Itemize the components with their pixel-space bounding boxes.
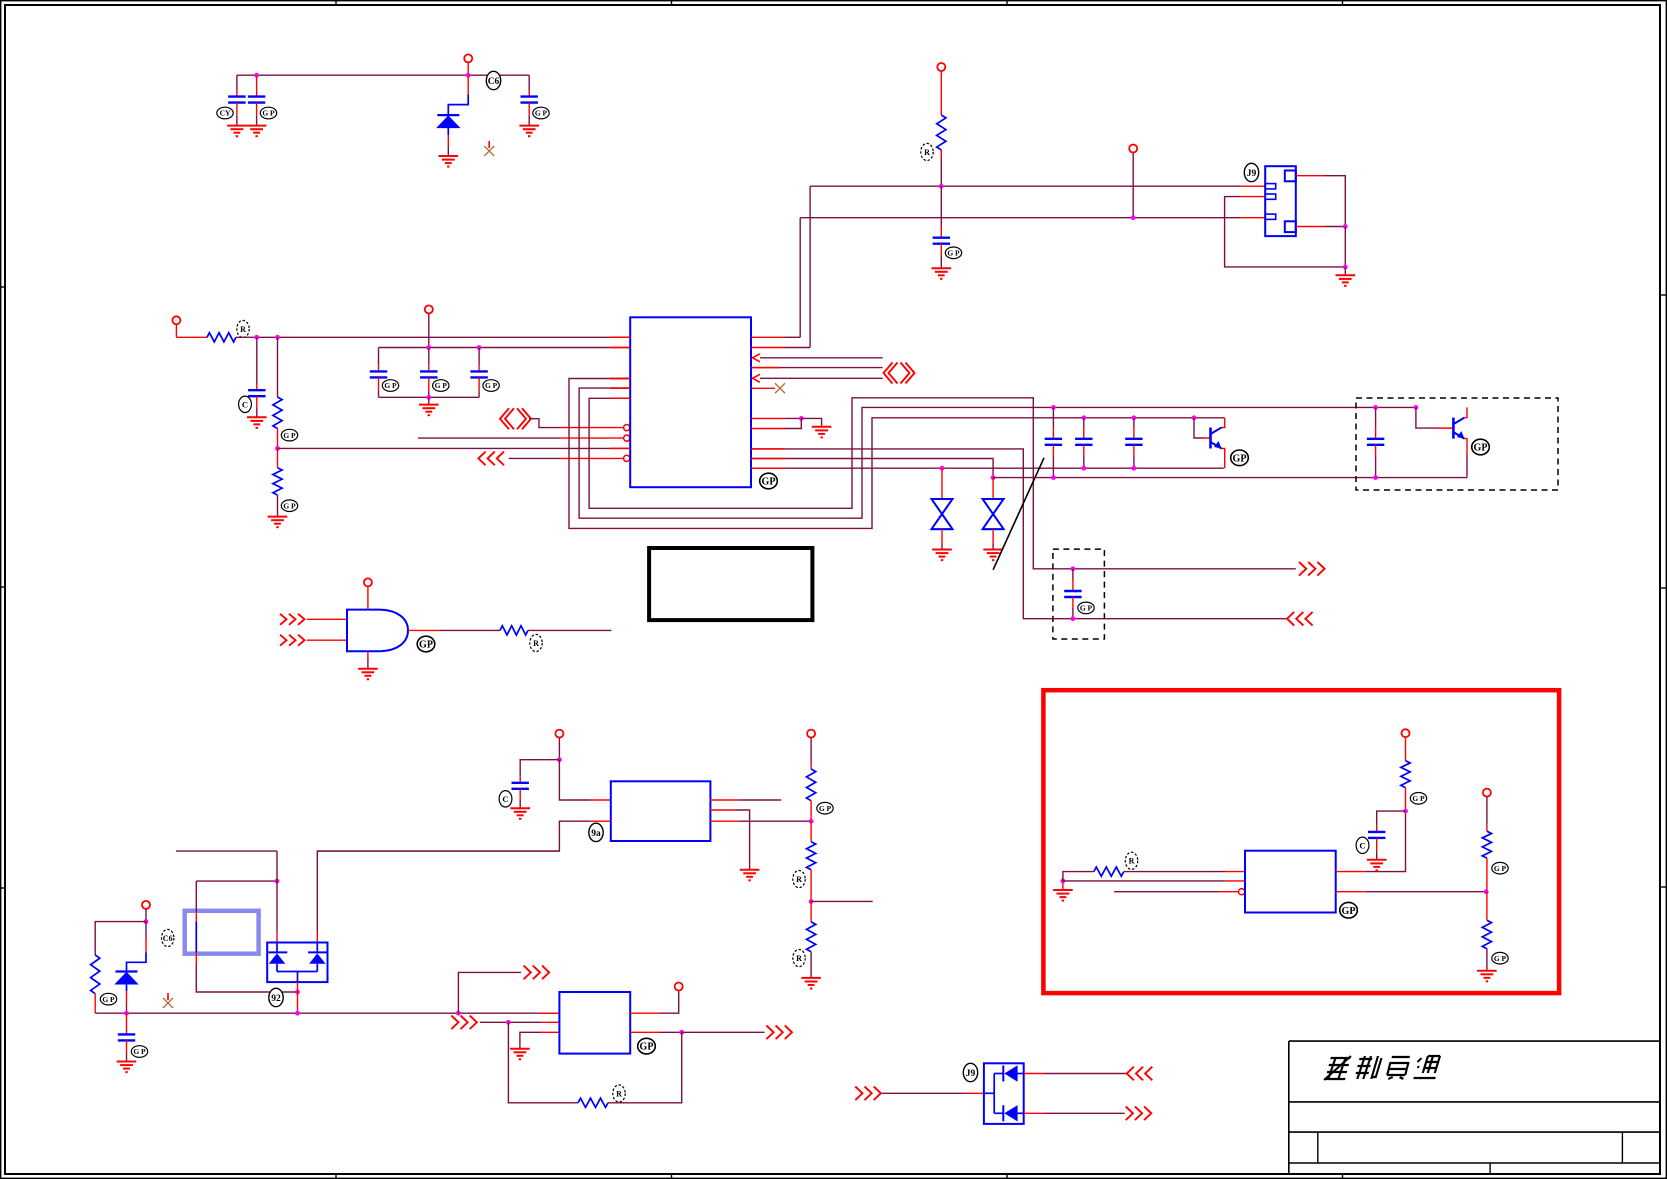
dashed box DNP2 (1356, 398, 1558, 490)
wire U6 out1 red (1336, 871, 1366, 873)
ground (932, 550, 952, 561)
wire C3 to gnd (528, 116, 530, 126)
annotation red box (1043, 690, 1559, 993)
wire bracket net N2 (579, 388, 1416, 518)
TVS diode D3 (983, 499, 1004, 529)
wire C2 lead red (256, 75, 258, 96)
wire net IN2 red stub (610, 447, 630, 449)
capacitor C4 (933, 238, 950, 244)
wire U7 out1 red (1024, 1073, 1044, 1075)
wire C6 top red (378, 365, 380, 371)
U1 left pin stub (610, 378, 630, 380)
label C4 GP (945, 247, 961, 259)
ground (247, 417, 267, 428)
junction (295, 990, 300, 995)
wire opto top link (176, 850, 277, 852)
resistor R8 (807, 922, 816, 952)
wire cap top lead red (1133, 427, 1135, 439)
wire U1 pin15 to riser (785, 347, 810, 349)
U1 left pin stub redo3 (610, 397, 630, 399)
wire C15 lead red (126, 1013, 128, 1034)
off-page connector B2 (451, 1016, 477, 1030)
wire U3 out1 red (710, 799, 740, 801)
company logo text (1324, 1056, 1441, 1080)
wire R3 lower red (277, 429, 279, 449)
U1 left pin stub (610, 387, 630, 389)
svg-text:C: C (242, 399, 248, 409)
label C15 GP (131, 1046, 147, 1058)
wire U7 out1 (1044, 1073, 1127, 1075)
wire C5 to gnd (256, 408, 258, 417)
off-page connector B3 (766, 1026, 792, 1040)
wire net VOUT rail (751, 467, 1224, 469)
terminal P10 (675, 983, 683, 991)
wire U6 pin3 net (1114, 891, 1218, 893)
wire U3 pin2 red (590, 820, 611, 822)
svg-text:R: R (240, 325, 246, 334)
pin circle U1 in3 (624, 425, 630, 431)
off-page connector IN3 (500, 408, 531, 429)
wire C14 branch (520, 760, 559, 777)
wire net IN2 (278, 447, 611, 449)
junction (144, 919, 149, 924)
wire U7 out2 (1044, 1112, 1125, 1114)
wire C12 bot (1072, 608, 1074, 619)
ground (801, 978, 821, 989)
ground (268, 517, 288, 528)
wire tap out (811, 900, 873, 902)
wire U1 pin16 to riser (785, 336, 800, 338)
label U3 (589, 823, 603, 841)
wire C2 lower (256, 103, 258, 116)
svg-text:C: C (1359, 840, 1365, 850)
wire U6 pin3 red (1218, 891, 1239, 893)
junction (254, 335, 259, 340)
resistor R10 (578, 1098, 608, 1107)
wire R1 to rail (940, 158, 942, 186)
terminal P11 (1402, 729, 1410, 737)
svg-text:G P: G P (819, 804, 832, 813)
resistor R1 (937, 115, 946, 150)
wire U1 pin16 stub (751, 336, 785, 338)
wire J1 pin2 loop (1225, 197, 1346, 267)
wire U1 pin8 stub (751, 428, 785, 430)
label C16 (1356, 837, 1369, 853)
wire rail B red stub (1240, 217, 1265, 219)
label R12 GP (1410, 793, 1426, 805)
wire opto anode1 (276, 851, 278, 932)
off-page connector G1 (280, 614, 305, 625)
svg-text:G P: G P (133, 1047, 146, 1056)
wire U2 gnd (367, 658, 369, 669)
U1 pin stub d2 (751, 458, 785, 460)
wire U5 out1 (660, 991, 679, 1014)
capacitor C10 (1125, 439, 1142, 445)
wire R3 lead (277, 337, 279, 397)
U1 left pin stub (610, 397, 630, 399)
wire P9 drop (145, 909, 147, 922)
annotation slash (993, 458, 1044, 570)
svg-text:GP: GP (419, 640, 433, 651)
wire C7 top lead (428, 348, 430, 366)
wire IN3 red (560, 427, 624, 429)
wire D4 step blue (127, 952, 147, 970)
label R1 (921, 143, 933, 160)
capacitor C5 (248, 390, 265, 396)
wire U5 out1 red (630, 1012, 660, 1014)
junction (1132, 466, 1137, 471)
no-connect flag 2 (163, 993, 173, 1008)
wire C15 lower red (126, 1040, 128, 1053)
wire C9 bot lead red (1052, 445, 1054, 457)
wire opto in1 a (195, 881, 197, 912)
wire opto in1 blue (195, 922, 197, 952)
label R3 GP (281, 429, 297, 441)
capacitor C10 (1075, 439, 1092, 445)
wire D4 lead (145, 922, 147, 939)
junction (1132, 415, 1137, 420)
wire J1 pin2 red (1240, 196, 1265, 198)
wire C16 branch (1377, 811, 1406, 826)
ground (117, 1062, 137, 1073)
ground (439, 156, 459, 167)
terminal P3 (1129, 145, 1137, 153)
junction (1081, 466, 1086, 471)
off-page connector IN5 (478, 452, 504, 466)
resistor R2 (207, 333, 236, 342)
resistor R4 (273, 468, 282, 495)
junction (426, 345, 431, 350)
resistor R7 (807, 842, 816, 870)
junction (124, 1011, 129, 1016)
wire J1 pin4 to gnd rail (1325, 176, 1345, 227)
wire R6 bot red (810, 801, 812, 822)
top margin tick 3 (1006, 0, 1008, 5)
wire U3 vin red (590, 799, 611, 801)
wire cap bot lead red (1133, 445, 1135, 456)
wire cap bank red stub (610, 347, 630, 349)
label Q2 GP (1472, 439, 1490, 455)
svg-text:R: R (796, 954, 802, 963)
wire cap top lead (1083, 418, 1085, 427)
ground (227, 126, 247, 137)
junction (557, 757, 562, 762)
junction (477, 345, 482, 350)
wire D1 to gnd (447, 146, 449, 156)
wire Q2 emitter (1466, 455, 1468, 478)
off-page connector OUTA (1299, 562, 1325, 576)
wire C3 lower (528, 103, 530, 116)
wire R4 lead red (277, 448, 279, 467)
wire U1 pin9 stub (751, 417, 785, 419)
label R7 (793, 871, 805, 888)
junction (275, 446, 280, 451)
bottom margin tick 4 (1342, 1174, 1344, 1179)
wire cap top lead (1133, 418, 1135, 427)
wire riser to U1 pin15 (809, 186, 811, 347)
junction (679, 1030, 684, 1035)
svg-text:R: R (1129, 857, 1135, 866)
off-page connector B4 (855, 1087, 881, 1101)
capacitor C3 (521, 97, 538, 103)
wire IN5 red (560, 457, 624, 459)
wire C7 bot (428, 391, 430, 397)
svg-text:GP: GP (1233, 453, 1247, 464)
wire R9 bot red (94, 994, 96, 1014)
junction (1071, 566, 1076, 571)
wire U6 out2 (1366, 891, 1486, 893)
ground (812, 427, 832, 438)
top margin tick 2 (671, 0, 673, 5)
U1 left pin stub (610, 336, 630, 338)
wire bank gnd drop (428, 397, 430, 404)
wire J1 pin5 join (1325, 226, 1345, 228)
wire C12 top lead (1072, 569, 1074, 580)
resistor R6 (807, 769, 816, 801)
wire R6 top (810, 738, 812, 762)
wire D4 bot red (126, 991, 128, 1004)
junction (1403, 809, 1408, 814)
ground (1053, 890, 1073, 901)
wire C8 bot red (478, 377, 480, 391)
svg-text:J9: J9 (1247, 169, 1257, 179)
wire C8 top lead (478, 348, 480, 366)
bottom margin tick 3 (1006, 1174, 1008, 1179)
wire C7 top red (428, 365, 430, 371)
left margin tick 2 (0, 586, 5, 588)
wire R4 to gnd (277, 495, 279, 517)
wire net VCC1 top (237, 74, 529, 76)
wire Q1 base path (1194, 418, 1203, 438)
wire U3 out2 red (710, 809, 735, 811)
junction (991, 475, 996, 480)
Q2 base red stub (1437, 427, 1452, 429)
junction (275, 879, 280, 884)
svg-text:G P: G P (435, 381, 448, 390)
resistor R11 (1094, 867, 1124, 876)
wire R6 top red (810, 762, 812, 769)
wire C1 to gnd (236, 116, 238, 126)
wire U7 in (882, 1092, 966, 1094)
wire U6 out1 (1366, 811, 1406, 872)
wire TVS2 lower red (992, 529, 994, 543)
svg-text:CY: CY (220, 109, 231, 118)
label R6 GP (817, 802, 833, 814)
capacitor C6 (370, 371, 387, 377)
wire rail 478 (993, 477, 1467, 479)
wire R7 bot red (810, 870, 812, 902)
wire gnd up (1062, 881, 1064, 890)
wire U3 out1 (740, 799, 781, 801)
label C1 (217, 107, 233, 119)
wire D4 lead red (145, 939, 147, 953)
label J1 (1244, 163, 1258, 181)
wire D1 lower red (447, 135, 449, 146)
resistor R3 (273, 397, 282, 429)
svg-text:GP: GP (762, 477, 776, 488)
wire C8 top red (478, 365, 480, 371)
svg-text:G P: G P (947, 249, 960, 258)
ground (1336, 275, 1356, 286)
wire rail net A (810, 185, 1240, 187)
wire R12 bot red (1405, 788, 1407, 812)
wire C16 red (1376, 826, 1378, 832)
wire TVS1 lower red (941, 529, 943, 543)
wire Q2 emitter red (1464, 439, 1467, 455)
wire C12 bot red (1072, 597, 1074, 608)
wire U5 pin3 red (540, 1031, 559, 1033)
title block border (1289, 1041, 1660, 1174)
svg-text:G P: G P (1080, 604, 1093, 613)
ground (740, 870, 760, 881)
wire C3 lead (528, 75, 530, 90)
svg-text:G P: G P (283, 431, 296, 440)
left margin tick 3 (0, 887, 5, 889)
wire C3 lead red (528, 91, 530, 97)
wire U7 in red (966, 1092, 984, 1094)
wire opto anode2 red (316, 932, 318, 943)
wire U4 common drop (297, 992, 299, 1013)
off-page connector G2 (280, 635, 305, 646)
diode pack U7 internals (984, 1065, 1024, 1121)
junction (809, 819, 814, 824)
wire U2 gnd red (367, 651, 369, 658)
wire C5 lower red (256, 396, 258, 408)
wire IN4 red (560, 437, 624, 439)
wire IN5 (509, 457, 560, 459)
right margin tick 2 (1660, 587, 1667, 589)
wire C15 to gnd (126, 1053, 128, 1062)
label C2 GP (260, 107, 276, 119)
no-connect X (775, 383, 785, 393)
wire U6 out2 red (1336, 891, 1366, 893)
wire net TX (760, 357, 883, 359)
U1 pin stub vout (751, 467, 785, 469)
wire U5 out2 (660, 1031, 682, 1033)
svg-text:GP: GP (640, 1042, 654, 1053)
no-connect flag (484, 141, 494, 156)
wire C6 top lead (378, 348, 380, 366)
wire R7 top red (810, 821, 812, 842)
terminal P8 (807, 730, 815, 738)
wire bracket net N3 (589, 398, 1296, 569)
wire R11 out (1124, 871, 1225, 873)
wire U2 vcc red (367, 587, 369, 610)
wire net D2out (751, 459, 993, 478)
label C6 (486, 71, 500, 89)
wire fb loop b (608, 1032, 682, 1103)
wire C9 top lead red (1052, 427, 1054, 439)
wire IN4 (418, 437, 560, 439)
capacitor C13 (1367, 439, 1384, 445)
label C6 GP (382, 380, 398, 392)
fuse F1 box (185, 911, 259, 954)
label U7 (963, 1063, 977, 1081)
wire TVS2 lead red (992, 478, 994, 499)
wire P5 drop (428, 314, 430, 348)
ground (983, 550, 1003, 561)
wire rail net B (800, 217, 1240, 219)
wire C12 top red (1072, 580, 1074, 592)
junction (1484, 889, 1489, 894)
off-page connector serial (884, 363, 915, 384)
U1 pin stub d1 (751, 448, 785, 450)
diode D1 (437, 115, 459, 128)
label C5 (239, 396, 252, 412)
wire opto link (196, 880, 277, 882)
U1 left pin stub redo2 (610, 387, 630, 389)
junction (456, 1011, 461, 1016)
wire C1 lead (236, 75, 238, 90)
label U1 GP (760, 473, 778, 489)
wire IN3 (529, 419, 560, 428)
label C7 GP (433, 380, 449, 392)
wire C4 lower red (940, 244, 942, 256)
terminal P1 (464, 54, 472, 62)
wire gnd hop (801, 418, 821, 426)
junction (1071, 616, 1076, 621)
wire D4 bot (126, 1004, 128, 1013)
wire C4 lead red (940, 226, 942, 238)
svg-text:C: C (502, 794, 508, 804)
wire opto in1 b (196, 964, 297, 992)
wire U2 out (440, 629, 500, 631)
wire P2 drop red (940, 71, 942, 115)
label Q1 GP (1231, 450, 1249, 466)
junction (1051, 475, 1056, 480)
junction (1051, 405, 1056, 410)
label F1 (162, 929, 174, 946)
junction (1373, 475, 1378, 480)
wire cap top lead red (1083, 427, 1085, 439)
pin circle U6 (1239, 889, 1245, 895)
wire C8 bot (478, 391, 480, 397)
label R4 GP (281, 500, 297, 512)
wire opto right link (317, 850, 559, 852)
wire G1 input red (307, 618, 347, 620)
wire bracket net N1 (569, 379, 1225, 529)
junction (809, 899, 814, 904)
U1 pin arrow B (753, 374, 761, 382)
label U5 GP (638, 1038, 656, 1054)
wire fb loop (508, 1022, 578, 1103)
wire C5 lead (256, 337, 258, 384)
label R5 (530, 634, 542, 651)
wire opto anode1 red (276, 932, 278, 943)
diode pack U4 body (267, 943, 327, 983)
ground (932, 268, 952, 279)
resistor R13 (1482, 831, 1491, 858)
wire net CTS (760, 377, 883, 379)
wire U1 pin9 (785, 417, 801, 419)
wire C16 lower red (1376, 838, 1378, 851)
junction (939, 184, 944, 189)
ground (519, 126, 539, 137)
wire R11 out red (1225, 871, 1245, 873)
wire rail red stub U5 (540, 1012, 559, 1014)
off-page connector B6 (1126, 1107, 1152, 1121)
wire U3 vin (559, 760, 590, 800)
wire cap bank bottom rail (379, 396, 480, 398)
junction (426, 395, 431, 400)
svg-text:G P: G P (1494, 954, 1507, 963)
wire R5 out (528, 629, 611, 631)
wire U4 common red (297, 982, 299, 992)
ground (510, 808, 530, 819)
wire J1 pin5 red (1296, 226, 1325, 228)
capacitor C9 (1045, 439, 1062, 445)
svg-text:G P: G P (1494, 864, 1507, 873)
